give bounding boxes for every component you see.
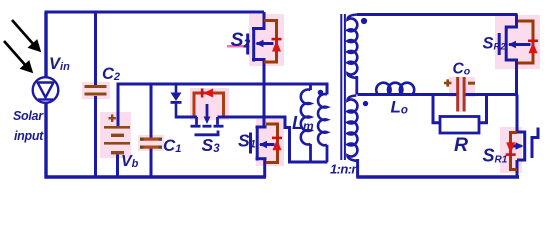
switch SR2 (MOSFET) xyxy=(515,15,518,27)
svg-text:C1: C1 xyxy=(163,136,181,155)
svg-text:input: input xyxy=(14,129,44,143)
highlight S1 xyxy=(256,119,284,166)
battery Vb xyxy=(104,115,130,155)
highlight Co xyxy=(449,77,475,97)
svg-text:Lo: Lo xyxy=(391,98,408,117)
capacitor Co xyxy=(456,77,459,112)
inductor Lo xyxy=(376,83,414,94)
switch SR1 (MOSFET, mirrored) xyxy=(516,95,519,132)
resistor R xyxy=(433,96,440,123)
wire secondary bottom lead xyxy=(356,159,359,177)
polarity dot (secondary top) xyxy=(361,18,367,24)
wire bottom-left rail xyxy=(45,175,267,178)
highlight S2 xyxy=(249,14,284,66)
svg-text:S3: S3 xyxy=(202,135,221,155)
svg-text:Vin: Vin xyxy=(49,55,70,73)
svg-text:S1: S1 xyxy=(238,131,256,151)
wire transformer-bottom rail (primary side) xyxy=(288,161,328,164)
wire top-right rail xyxy=(357,13,518,16)
body diode of S1 xyxy=(266,124,278,163)
switch S1 (MOSFET) xyxy=(251,126,275,161)
svg-text:Co: Co xyxy=(453,61,471,78)
svg-text:Vb: Vb xyxy=(121,153,139,170)
svg-text:Solar: Solar xyxy=(13,109,44,123)
solar arrow 2 xyxy=(4,41,33,73)
highlight C1 xyxy=(138,135,164,151)
wire secondary center tap xyxy=(355,76,358,95)
transformer primary winding xyxy=(318,94,327,145)
highlight S3 xyxy=(190,88,229,120)
wire bottom-right rail xyxy=(356,175,519,178)
highlight SR1 xyxy=(500,127,522,173)
transformer secondary winding (lower) xyxy=(348,96,358,162)
wire mid rail (battery top to primary top) xyxy=(118,84,327,126)
inductor Lm xyxy=(309,84,312,90)
body diode of SR2 xyxy=(518,21,533,63)
highlight SR2 xyxy=(495,15,540,69)
solar arrow 1 xyxy=(12,20,41,52)
polarity dot (primary) xyxy=(318,90,324,96)
transformer secondary winding (upper) xyxy=(348,15,359,78)
wire S3 left lead xyxy=(175,116,197,119)
wire output rail (right of Co) xyxy=(465,93,518,96)
body diode of S3 (red, loop) xyxy=(194,93,224,116)
wire left vertical (Vin bottom lead) xyxy=(44,102,47,179)
switch S2 (MOSFET) xyxy=(263,12,266,28)
svg-text:1:n:n: 1:n:n xyxy=(330,162,359,177)
wire S3 right lead to transformer bottom xyxy=(218,117,290,162)
svg-text:S2: S2 xyxy=(231,29,251,51)
solar cell Vin (circle diode) xyxy=(33,77,59,103)
wire output rail (left of Co) xyxy=(358,93,458,96)
polarity dot (secondary lower) xyxy=(363,101,368,106)
transformer core xyxy=(340,14,342,160)
capacitor C2 xyxy=(94,12,97,85)
svg-text:R: R xyxy=(454,134,468,156)
switch S3 (lateral MOSFET) xyxy=(191,104,224,135)
wire left vertical (Vin top lead) xyxy=(44,12,47,78)
svg-text:C2: C2 xyxy=(102,65,120,83)
highlight C2 xyxy=(82,82,110,99)
diode D (blue, above S3) xyxy=(175,85,178,93)
capacitor C1 xyxy=(150,84,153,138)
body diode of SR1 xyxy=(511,133,518,170)
highlight battery xyxy=(100,112,131,158)
wire top-left rail xyxy=(45,11,265,14)
body diode of S2 xyxy=(264,21,277,63)
